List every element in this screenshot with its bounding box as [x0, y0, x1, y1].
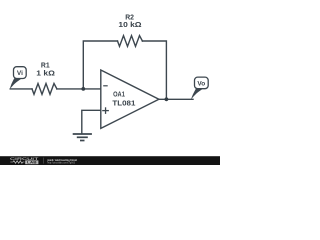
wire feedback left vertical and top to R2 [83, 41, 117, 89]
flag Vo tail [191, 89, 202, 100]
svg-text:http //circuitlab.com/c7g663: http //circuitlab.com/c7g663 [47, 161, 75, 165]
footer logo LAB badge [25, 160, 38, 164]
svg-text:10 kΩ: 10 kΩ [118, 20, 141, 29]
op-amp minus sign [103, 85, 108, 87]
flag Vo box [195, 77, 209, 89]
svg-text:1 kΩ: 1 kΩ [36, 69, 55, 78]
resistor R2 [118, 36, 143, 47]
wire non-inverting input to ground [82, 110, 101, 133]
footer bar [0, 156, 220, 165]
svg-text:Vo: Vo [197, 80, 205, 87]
svg-text:OA1: OA1 [113, 92, 125, 99]
svg-text:LAB: LAB [27, 160, 37, 164]
op-amp U1 triangle [101, 70, 159, 128]
wire op-amp output [159, 98, 193, 100]
svg-text:TL081: TL081 [112, 100, 135, 107]
flag Vi tail [10, 78, 21, 89]
node junction output [165, 97, 169, 101]
ground G1 bars [73, 134, 92, 141]
op-amp plus sign [102, 107, 109, 114]
node junction inverting input [81, 87, 85, 91]
wire R1 to op-amp inverting input [57, 88, 101, 90]
wire R2 to right vertical down to output [142, 41, 166, 99]
footer logo resistor zigzag [10, 161, 24, 164]
footer separator [42, 158, 45, 164]
wire input Vi to R1 [10, 88, 32, 90]
resistor R1 [32, 84, 57, 95]
svg-text:Vi: Vi [17, 70, 23, 77]
flag Vi box [14, 67, 27, 79]
